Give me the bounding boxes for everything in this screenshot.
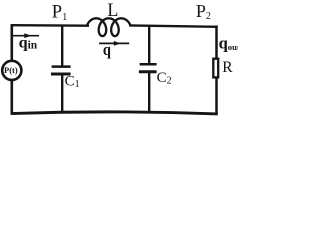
svg-text:C1: C1: [65, 73, 80, 89]
svg-text:P(t): P(t): [4, 65, 18, 75]
wire C1 branch upper: [61, 26, 63, 67]
arrow q_in: [13, 33, 40, 38]
wire top-right horizontal: [129, 25, 218, 26]
node P2 label: [196, 1, 211, 22]
label R: [222, 59, 233, 76]
svg-text:P1: P1: [52, 3, 68, 23]
label C2: [157, 70, 172, 86]
wire C2 branch lower: [148, 72, 150, 113]
svg-text:q: q: [103, 41, 111, 59]
resistor R: [213, 59, 218, 78]
label q_out: [219, 34, 240, 53]
node P1 label: [52, 3, 68, 23]
svg-text:C2: C2: [157, 70, 172, 86]
inductor L: [87, 18, 130, 36]
wire top-left horizontal: [11, 24, 90, 27]
svg-text:P2: P2: [196, 1, 211, 22]
wire left vertical lower: [11, 80, 14, 114]
svg-text:qout: qout: [219, 34, 238, 53]
label q_in: [19, 33, 38, 51]
wire bottom horizontal: [11, 112, 218, 114]
source P(t): [2, 61, 21, 80]
wire left vertical: [11, 25, 14, 61]
wire C2 branch upper: [148, 26, 150, 64]
label L: [107, 0, 118, 21]
wire right vertical upper: [215, 25, 218, 58]
wire right vertical lower: [215, 78, 218, 114]
svg-text:L: L: [107, 0, 118, 21]
label q: [103, 41, 111, 59]
label C1: [65, 73, 80, 89]
capacitor C2: [139, 64, 157, 71]
svg-text:R: R: [222, 59, 233, 76]
capacitor C1: [51, 67, 71, 74]
arrow q: [99, 41, 129, 46]
wire C1 branch lower: [61, 74, 63, 113]
